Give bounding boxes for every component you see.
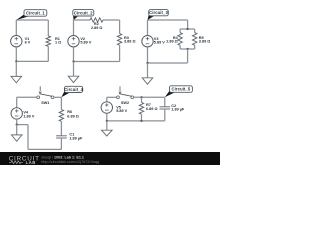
circuit5 wire top mid	[134, 96, 165, 98]
svg-text:6.89 Ω: 6.89 Ω	[67, 114, 79, 118]
V5 labels	[116, 106, 127, 114]
circuit4 wire bottom	[28, 148, 61, 150]
circuit1 wire R1 top lead	[47, 20, 49, 36]
circuit3 wire R4 top lead	[179, 29, 181, 33]
circuit2 junction node	[72, 60, 74, 62]
circuit3 wire V3 top stub	[147, 20, 149, 36]
V1 labels	[25, 37, 31, 45]
label callout Circuit_5 tail	[165, 90, 176, 97]
svg-text:1.89 V: 1.89 V	[23, 115, 34, 119]
ground circuit4	[11, 135, 22, 141]
circuit5 wire V5 bottom stub	[106, 113, 108, 121]
svg-text:2.89 Ω: 2.89 Ω	[91, 26, 103, 30]
circuit3 junction node	[146, 62, 148, 64]
label callout Circuit_2 box	[73, 10, 94, 16]
ground circuit2	[68, 76, 79, 82]
C1 labels	[69, 133, 83, 141]
label callout Circuit_5 box	[170, 86, 193, 93]
circuit3 bottom bus	[180, 48, 195, 50]
svg-text:1.89 µF: 1.89 µF	[171, 108, 185, 112]
circuit3 wire R4 bottom lead	[179, 45, 181, 49]
svg-text:Circuit_5: Circuit_5	[172, 87, 191, 92]
label callout Circuit_1 box	[24, 10, 47, 17]
svg-text:Circuit_1: Circuit_1	[26, 11, 45, 16]
circuit2 ground stem	[73, 62, 75, 77]
label callout Circuit_2 tail	[73, 14, 79, 20]
V2 labels	[80, 37, 91, 45]
ground circuit1	[11, 76, 22, 82]
circuit3 wire R5 top lead	[194, 29, 196, 33]
svg-text:1 Ω: 1 Ω	[55, 41, 61, 45]
voltage source V4	[11, 108, 22, 119]
label callout Circuit_3 tail	[148, 14, 155, 20]
voltage source V2	[68, 36, 79, 47]
resistor R1	[46, 36, 50, 46]
switch SW2 pins	[117, 96, 134, 99]
resistor R4	[178, 33, 182, 46]
circuit4 wire V4 bottom stub	[16, 119, 18, 125]
svg-text:5.89 V: 5.89 V	[116, 109, 127, 113]
R5 labels	[199, 36, 211, 44]
voltage source V1	[11, 36, 22, 47]
circuit3 top bus	[180, 28, 195, 30]
V3 labels	[154, 37, 165, 45]
svg-text:6.89 Ω: 6.89 Ω	[146, 107, 158, 111]
circuit4 wire top right	[54, 96, 62, 98]
capacitor C2	[160, 107, 171, 109]
svg-text:3.89 Ω: 3.89 Ω	[124, 40, 136, 44]
circuit2 wire top right	[103, 19, 120, 21]
circuit3 wire V3 bottom stub	[147, 47, 149, 63]
circuit2 wire V2 top stub	[73, 20, 75, 36]
circuit5 wire C2 top lead	[164, 97, 166, 107]
footer bar	[0, 152, 220, 165]
circuit3 bottom bus node	[186, 48, 188, 50]
circuit1 wire bottom	[16, 60, 48, 62]
circuit1 wire R1 bottom lead	[47, 46, 49, 61]
svg-text:3.89 Ω: 3.89 Ω	[199, 40, 211, 44]
circuit1 wire top	[16, 19, 48, 21]
circuit3 top bus node	[186, 28, 188, 30]
label callout Circuit_4 tail	[61, 91, 70, 98]
R6 labels	[67, 110, 79, 118]
circuit3 wire top stub down	[187, 20, 189, 29]
circuit5 wire bottom	[107, 120, 165, 122]
resistor R6	[59, 110, 63, 122]
C2 labels	[171, 104, 185, 112]
circuit3 wire bottom	[148, 62, 188, 64]
circuit4 wire C1 bottom lead	[60, 138, 62, 149]
circuit4 wire right down	[60, 97, 62, 109]
circuit4 wire V4 top stub	[16, 97, 18, 107]
svg-text:chuoji / 1003: Lab 1: E1.1: chuoji / 1003: Lab 1: E1.1	[41, 155, 84, 159]
circuit5 wire top left	[107, 96, 117, 98]
circuit2 wire bottom	[74, 61, 120, 63]
R3 labels	[124, 36, 136, 44]
circuit2 wire R3 bottom lead	[119, 45, 121, 61]
circuit5 wire R7 top lead	[141, 97, 143, 102]
R2 labels	[91, 22, 103, 30]
circuit1 wire V1 bottom stub	[15, 47, 17, 62]
svg-text:5.89 V: 5.89 V	[80, 41, 91, 45]
circuit2 wire V2 bottom stub	[73, 47, 75, 62]
resistor R5	[193, 33, 197, 46]
switch SW1 lever	[39, 94, 52, 97]
circuit4 ground stem	[16, 125, 18, 135]
ground circuit3	[142, 78, 153, 84]
voltage source V3	[142, 36, 153, 47]
svg-text:Circuit_4: Circuit_4	[64, 87, 83, 92]
svg-text:5.89 V: 5.89 V	[154, 41, 165, 45]
svg-text:6 V: 6 V	[25, 41, 31, 45]
circuit2 wire R3 top lead	[119, 20, 121, 34]
circuit4 wire top left	[17, 96, 37, 98]
circuit5 R7 top node	[140, 96, 142, 98]
R7 labels	[146, 103, 158, 111]
circuit4 wire return up	[27, 125, 29, 150]
R1 labels	[55, 37, 61, 45]
svg-text:R6: R6	[67, 110, 72, 114]
ground circuit5	[102, 130, 113, 136]
switch SW2 actuator	[119, 86, 122, 93]
circuit4 junction node	[16, 123, 18, 125]
capacitor C1	[56, 136, 67, 138]
circuit1 junction node	[15, 60, 17, 62]
label callout Circuit_1 tail	[16, 14, 30, 20]
resistor R3	[117, 34, 121, 46]
circuit5 wire V5 top stub	[106, 97, 108, 101]
circuit1 wire V1 top stub	[15, 20, 17, 36]
circuit1 ground stem	[15, 61, 17, 76]
circuit5 wire C2 bottom lead	[164, 109, 166, 121]
circuit4 wire R6-C1 lead	[60, 121, 62, 135]
circuit5 R7 bottom node	[140, 120, 142, 122]
switch SW1 pins	[37, 96, 54, 99]
R4 labels	[166, 36, 178, 44]
circuit3 ground stem	[147, 63, 149, 78]
circuit3 wire top	[148, 19, 188, 21]
circuit3 wire bottom stub down	[187, 49, 189, 63]
svg-text:SW1: SW1	[41, 101, 49, 105]
circuit3 wire R5 bottom lead	[194, 45, 196, 49]
circuit4 wire return left	[17, 124, 28, 126]
footer logo resistor zigzag	[9, 161, 23, 164]
svg-text:SW2: SW2	[121, 101, 129, 105]
label callout Circuit_4 box	[64, 86, 83, 92]
V4 labels	[23, 111, 34, 119]
resistor R2	[90, 18, 103, 22]
switch SW2 lever	[119, 94, 132, 97]
circuit2 wire top left	[74, 19, 91, 21]
svg-text:http://circuitlab.com/c/2j7672: http://circuitlab.com/c/2j7672r3nqg	[41, 160, 99, 164]
svg-text:Circuit_3: Circuit_3	[149, 10, 168, 15]
svg-text:Circuit_2: Circuit_2	[74, 10, 93, 15]
label callout Circuit_3 box	[149, 10, 169, 16]
svg-text:LAB: LAB	[26, 160, 36, 165]
voltage source V5	[101, 102, 112, 113]
switch SW1 actuator	[39, 86, 42, 93]
circuit5 junction node	[106, 120, 108, 122]
svg-text:2.89 Ω: 2.89 Ω	[166, 40, 178, 44]
svg-text:1.89 µF: 1.89 µF	[69, 137, 83, 141]
resistor R7	[139, 102, 143, 114]
circuit5 ground stem	[106, 121, 108, 130]
circuit5 wire R7 bottom lead	[141, 114, 143, 121]
